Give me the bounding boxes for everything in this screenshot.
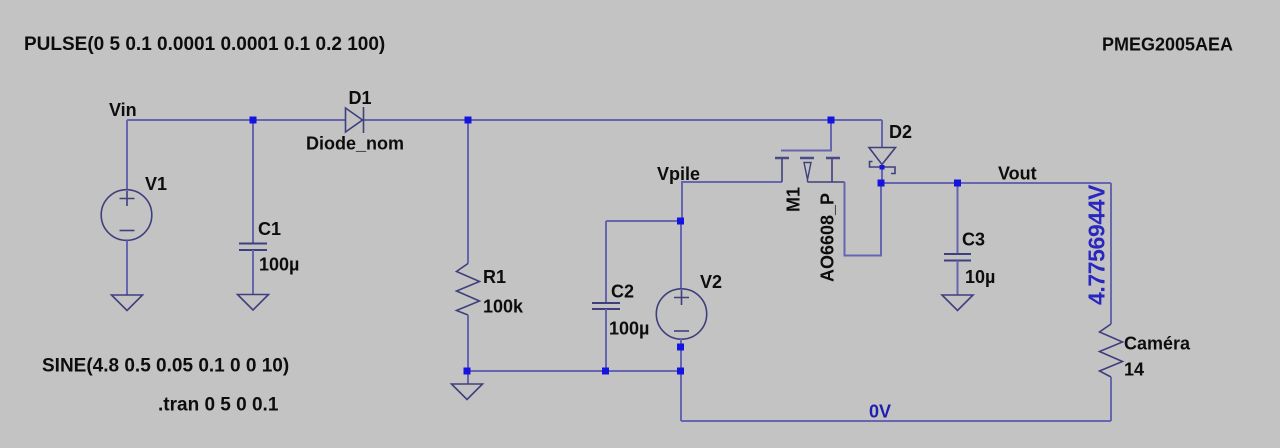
svg-text:R1: R1 — [483, 267, 506, 287]
svg-text:AO6608_P: AO6608_P — [818, 193, 838, 282]
junction node at R1 bottom — [464, 368, 471, 375]
junction node at M1 gate tap — [828, 117, 835, 124]
wire C1 bottom lead — [252, 250, 254, 295]
svg-text:C2: C2 — [611, 282, 634, 302]
capacitor C2 — [592, 303, 620, 309]
wire D2 bottom lead — [881, 167, 883, 183]
transistor M1 pmos channel bars — [775, 157, 840, 160]
svg-text:4.7756944V: 4.7756944V — [1084, 184, 1110, 305]
junction node at Vpile/C2/V2 — [677, 218, 684, 225]
svg-text:100µ: 100µ — [609, 319, 649, 339]
svg-text:M1: M1 — [784, 187, 804, 212]
svg-text:Vin: Vin — [109, 100, 137, 120]
wire D2 top lead — [881, 120, 883, 148]
svg-text:V2: V2 — [700, 272, 722, 292]
wire C3 bottom lead — [957, 261, 959, 296]
wire M1 gate lead from top rail — [781, 120, 831, 151]
wire bottom-left rail — [467, 370, 681, 372]
svg-text:C1: C1 — [258, 219, 281, 239]
svg-text:100µ: 100µ — [259, 255, 299, 275]
ground below C1 — [238, 295, 269, 311]
svg-text:C3: C3 — [962, 230, 985, 250]
transistor M1 source lead — [808, 159, 845, 182]
wire C2 top horizontal — [606, 220, 681, 222]
wire C2 bottom lead — [605, 309, 607, 371]
svg-text:14: 14 — [1124, 360, 1144, 380]
wire Vpile gate run — [682, 182, 782, 221]
resistor Caméra — [1100, 324, 1123, 377]
wire M1 source U-bend to Vout node — [845, 182, 882, 256]
wire C1 top lead — [252, 120, 254, 244]
voltage source V2 — [656, 289, 706, 339]
svg-text:V1: V1 — [145, 174, 167, 194]
wire V1 bottom lead — [126, 241, 128, 296]
junction node at D2 anode tip — [880, 165, 885, 170]
resistor R1 — [457, 264, 480, 316]
svg-text:D1: D1 — [349, 88, 372, 108]
junction node at Vin/C1 — [250, 117, 257, 124]
svg-text:0V: 0V — [869, 402, 891, 422]
wire R1 top lead — [467, 120, 469, 264]
svg-text:PULSE(0 5 0.1 0.0001 0.0001 0.: PULSE(0 5 0.1 0.0001 0.0001 0.1 0.2 100) — [24, 34, 385, 55]
svg-text:Vout: Vout — [998, 164, 1037, 184]
diode D2 schottky — [869, 148, 896, 174]
wire top rail Vin to D2 corner — [127, 119, 882, 121]
wire Caméra bottom lead — [1110, 377, 1112, 421]
wire Vout horizontal rail — [881, 182, 1111, 184]
svg-text:Diode_nom: Diode_nom — [306, 134, 404, 154]
voltage source V1 — [101, 190, 152, 241]
wire V2 top lead — [680, 221, 682, 289]
junction node at C3 top — [954, 180, 961, 187]
svg-text:D2: D2 — [889, 122, 912, 142]
svg-text:10µ: 10µ — [965, 267, 995, 287]
junction node at V2 bottom rail — [677, 368, 684, 375]
ground below R1 — [452, 384, 483, 400]
transistor M1 body arrow — [804, 163, 811, 183]
junction node at C2 bottom — [602, 368, 609, 375]
diode D1 — [346, 107, 364, 133]
wire V1 top lead — [126, 120, 128, 190]
wire right rail down from Vout — [1110, 183, 1112, 324]
svg-text:100k: 100k — [483, 297, 524, 317]
wire C3 top lead — [957, 183, 959, 254]
wire R1 bottom lead — [467, 315, 469, 384]
svg-text:PMEG2005AEA: PMEG2005AEA — [1102, 35, 1233, 55]
junction node at D2/Vout — [878, 180, 885, 187]
wire bottom rail 0V — [681, 420, 1111, 422]
transistor M1 drain lead to Vpile — [781, 159, 783, 182]
svg-text:.tran 0 5 0 0.1: .tran 0 5 0 0.1 — [158, 395, 279, 416]
wire V2 bottom lead — [680, 339, 682, 421]
capacitor C3 — [944, 254, 971, 261]
junction node below V2 — [677, 344, 684, 351]
ground below V1 — [112, 295, 143, 311]
wire C2 top lead — [605, 221, 607, 303]
capacitor C1 — [239, 244, 267, 251]
ground below C3 — [942, 295, 973, 311]
junction node at D1/R1 — [465, 117, 472, 124]
svg-text:Caméra: Caméra — [1124, 334, 1191, 354]
svg-text:SINE(4.8 0.5 0.05 0.1 0 0 10): SINE(4.8 0.5 0.05 0.1 0 0 10) — [42, 356, 289, 377]
